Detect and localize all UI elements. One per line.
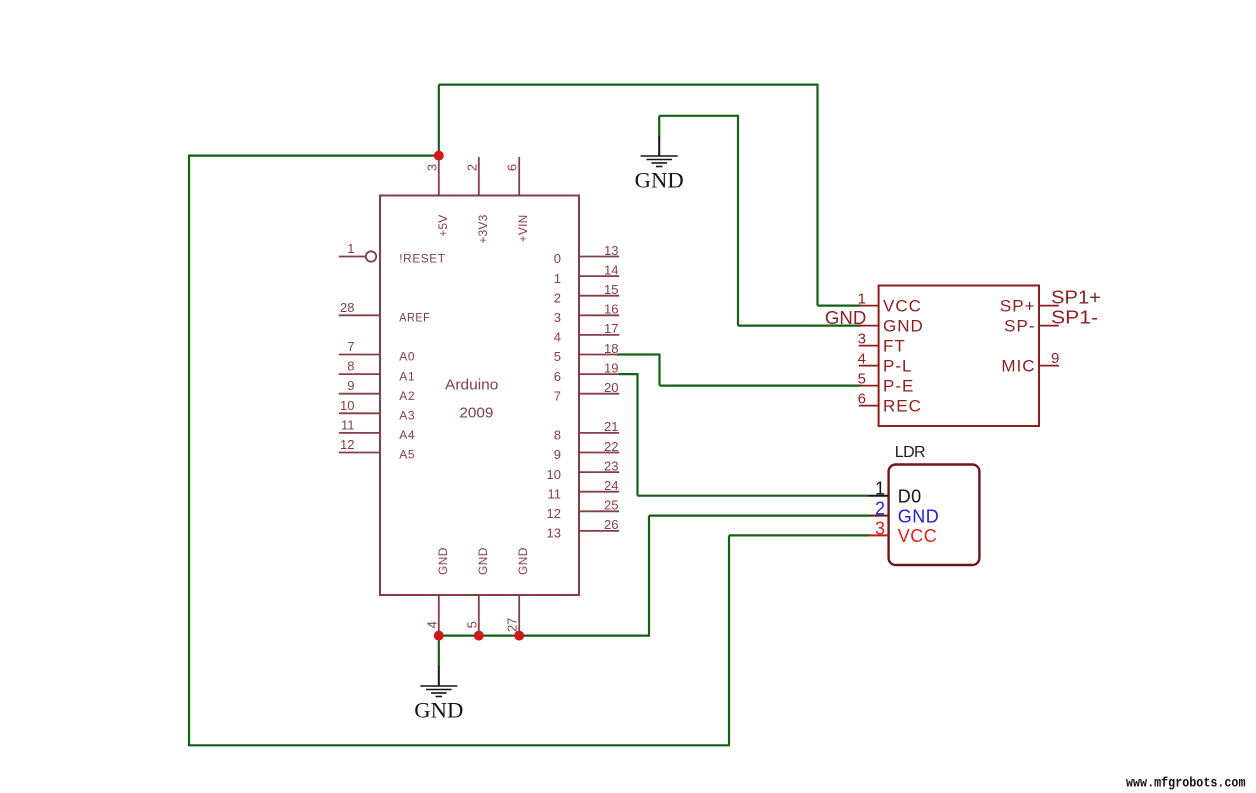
recorder pin 5 (P-E) stub — [859, 385, 879, 387]
svg-text:2: 2 — [464, 164, 479, 171]
Arduino pin 11 (A4) stub — [339, 432, 380, 434]
svg-text:25: 25 — [604, 498, 618, 513]
svg-text:VCC: VCC — [898, 526, 938, 546]
svg-text:23: 23 — [604, 458, 618, 473]
svg-text:10: 10 — [547, 467, 561, 482]
svg-text:7: 7 — [347, 339, 354, 354]
wire GND net vertical to recorder GND — [737, 115, 739, 326]
svg-text:13: 13 — [547, 526, 561, 541]
Arduino pin 5 (GND) stub — [478, 595, 480, 636]
svg-text:27: 27 — [505, 618, 520, 632]
svg-text:4: 4 — [858, 351, 866, 368]
svg-text:GND: GND — [476, 547, 490, 575]
wire +5V net bottom horizontal — [188, 744, 729, 746]
svg-text:D0: D0 — [898, 487, 922, 507]
svg-text:10: 10 — [340, 398, 354, 413]
svg-text:AREF: AREF — [399, 311, 430, 325]
junction dot GND at Arduino pin 4 — [434, 631, 444, 641]
Arduino pin 10 (A3) stub — [339, 412, 380, 414]
recorder pin 8 (SP-) stub — [1039, 325, 1059, 327]
wire +5V net top horizontal — [439, 83, 818, 85]
svg-text:SP-: SP- — [1004, 316, 1035, 335]
svg-text:GND: GND — [898, 506, 940, 526]
ground symbol top (GND) — [635, 136, 684, 193]
Arduino pin 3 (+5V) stub — [438, 157, 440, 196]
wire into LDR D0 pin — [638, 495, 870, 497]
recorder pin 6 (REC) stub — [859, 405, 879, 407]
Arduino pin 12 (A5) stub — [339, 452, 380, 454]
svg-text:28: 28 — [340, 300, 354, 315]
wire GND net into recorder GND pin — [738, 325, 861, 327]
recorder pin 2 (GND) stub — [859, 325, 879, 327]
Arduino pin 27 (GND) stub — [518, 595, 520, 636]
svg-text:1: 1 — [554, 271, 561, 286]
Arduino pin 13 (D0) stub — [579, 256, 619, 258]
wire +5V net vertical junction drop — [438, 85, 440, 157]
Arduino pin 26 (D13) stub — [579, 530, 619, 532]
LDR module body — [889, 465, 980, 566]
junction dot GND at Arduino pin 5 — [474, 631, 484, 641]
svg-text:6: 6 — [505, 164, 520, 171]
svg-text:18: 18 — [604, 341, 618, 356]
svg-text:8: 8 — [554, 428, 561, 443]
svg-text:9: 9 — [1051, 350, 1059, 367]
svg-text:GND: GND — [414, 698, 463, 723]
svg-text:+3V3: +3V3 — [476, 214, 490, 243]
wire into LDR GND pin — [649, 514, 870, 516]
svg-text:SP1-: SP1- — [1051, 307, 1098, 327]
svg-text:3: 3 — [554, 310, 561, 325]
svg-text:1: 1 — [347, 241, 354, 256]
svg-text:SP1+: SP1+ — [1051, 287, 1101, 307]
Arduino pin 24 (D11) stub — [579, 491, 619, 493]
svg-text:9: 9 — [347, 378, 354, 393]
junction dot +5V net at Arduino pin 3 — [434, 151, 444, 161]
wire GND bus drop to bottom ground symbol — [438, 636, 440, 666]
Arduino pin 19 (D6) stub — [579, 373, 619, 375]
svg-text:21: 21 — [604, 419, 618, 434]
svg-text:26: 26 — [604, 517, 618, 532]
svg-text:6: 6 — [858, 391, 866, 408]
svg-text:14: 14 — [604, 262, 618, 277]
Arduino pin 23 (D10) stub — [579, 471, 619, 473]
svg-text:www.mfgrobots.com: www.mfgrobots.com — [1126, 777, 1246, 792]
svg-text:7: 7 — [554, 388, 561, 403]
Arduino pin 14 (D1) stub — [579, 275, 619, 277]
svg-text:11: 11 — [548, 486, 562, 501]
wire GND net stub at top ground symbol — [658, 116, 660, 137]
Arduino pin 20 (D7) stub — [579, 393, 619, 395]
LDR pin 3 (VCC) stub — [869, 534, 889, 536]
svg-text:REC: REC — [883, 396, 922, 415]
svg-text:A3: A3 — [399, 409, 415, 423]
wire +5V net horizontal to left loop — [189, 155, 439, 157]
wire +5V net rise to LDR VCC — [728, 535, 730, 746]
recorder pin 9 (MIC) stub — [1039, 365, 1059, 367]
wire Arduino pin 19 to LDR D0 horizontal — [619, 373, 638, 375]
Arduino pin 18 (D5) stub — [579, 354, 619, 356]
svg-text:5: 5 — [464, 621, 479, 628]
svg-text:8: 8 — [347, 359, 354, 374]
wire Arduino pin 19 vertical segment — [636, 373, 638, 496]
voice recorder module body — [879, 286, 1039, 427]
svg-text:4: 4 — [554, 330, 561, 345]
svg-text:3: 3 — [858, 331, 866, 348]
svg-text:!RESET: !RESET — [399, 252, 445, 266]
svg-text:1: 1 — [875, 479, 885, 499]
wire +5V net right vertical to recorder VCC — [816, 84, 818, 306]
wire +5V net left vertical — [188, 155, 190, 746]
svg-text:A2: A2 — [399, 389, 415, 403]
LDR pin 2 (GND) stub — [869, 515, 889, 517]
svg-text:2009: 2009 — [459, 404, 493, 421]
svg-text:P-E: P-E — [883, 376, 914, 395]
ground symbol bottom (GND) — [414, 666, 463, 723]
svg-text:13: 13 — [604, 243, 618, 258]
Arduino pin 8 (A1) stub — [339, 373, 380, 375]
svg-text:A5: A5 — [399, 448, 415, 462]
svg-text:FT: FT — [883, 336, 906, 355]
svg-text:Arduino: Arduino — [445, 376, 498, 393]
wire Arduino pin 18 to recorder P-E horizontal — [617, 353, 660, 355]
wire GND net from top ground symbol — [659, 115, 738, 117]
svg-text:19: 19 — [604, 360, 618, 375]
svg-text:A0: A0 — [399, 350, 415, 364]
Arduino pin 17 (D4) stub — [579, 334, 619, 336]
Arduino pin 25 (D12) stub — [579, 510, 619, 512]
Arduino pin 16 (D3) stub — [579, 314, 619, 316]
svg-text:22: 22 — [604, 439, 618, 454]
wire GND bus rise to LDR GND — [648, 516, 650, 637]
svg-text:12: 12 — [547, 506, 561, 521]
svg-text:20: 20 — [604, 380, 618, 395]
svg-text:5: 5 — [858, 371, 866, 388]
Arduino pin 9 (A2) stub — [339, 393, 380, 395]
Arduino pin 4 (GND) stub — [438, 595, 440, 636]
Arduino pin 2 (+3V3) stub — [478, 157, 480, 196]
svg-text:24: 24 — [604, 478, 618, 493]
svg-text:GND: GND — [436, 547, 450, 575]
wire Arduino GND pins bottom bus — [439, 634, 649, 636]
svg-text:3: 3 — [875, 518, 885, 538]
svg-text:6: 6 — [554, 369, 561, 384]
recorder pin 1 (VCC) stub — [859, 305, 879, 307]
wire +5V net into recorder VCC pin — [818, 305, 862, 307]
Arduino pin 21 (D8) stub — [579, 432, 619, 434]
svg-text:GND: GND — [516, 547, 530, 575]
Arduino pin 28 (AREF) stub — [339, 314, 380, 316]
LDR pin 1 (D0) stub — [869, 495, 889, 497]
svg-text:+5V: +5V — [436, 215, 450, 237]
Arduino 2009 body — [380, 196, 579, 596]
svg-text:2: 2 — [875, 499, 885, 519]
Arduino pin 15 (D2) stub — [579, 295, 619, 297]
svg-text:GND: GND — [883, 316, 924, 335]
recorder pin 4 (P-L) stub — [859, 365, 879, 367]
Arduino pin 1 (!RESET) stub — [339, 256, 366, 258]
svg-text:15: 15 — [604, 282, 618, 297]
svg-text:11: 11 — [341, 417, 355, 432]
svg-text:VCC: VCC — [883, 296, 922, 315]
svg-text:GND: GND — [635, 168, 684, 193]
svg-text:MIC: MIC — [1001, 356, 1035, 375]
svg-text:SP+: SP+ — [1000, 296, 1036, 315]
svg-text:17: 17 — [604, 321, 618, 336]
svg-text:GND: GND — [825, 308, 866, 328]
recorder pin 3 (FT) stub — [859, 345, 879, 347]
svg-text:1: 1 — [858, 291, 866, 308]
svg-text:2: 2 — [554, 290, 561, 305]
wire +5V net into LDR VCC pin — [729, 534, 870, 536]
svg-text:0: 0 — [554, 251, 561, 266]
svg-text:A1: A1 — [399, 369, 415, 383]
Arduino pin 1 inversion circle — [366, 251, 376, 261]
svg-text:9: 9 — [554, 447, 561, 462]
recorder pin 10 (SP+) stub — [1039, 305, 1059, 307]
svg-text:A4: A4 — [399, 428, 415, 442]
svg-text:12: 12 — [340, 437, 354, 452]
Arduino pin 6 (+VIN) stub — [518, 157, 520, 196]
svg-text:P-L: P-L — [883, 356, 912, 375]
svg-text:3: 3 — [424, 164, 439, 171]
svg-text:16: 16 — [604, 302, 618, 317]
svg-text:+VIN: +VIN — [516, 215, 530, 243]
svg-text:4: 4 — [424, 621, 439, 628]
svg-text:LDR: LDR — [895, 444, 925, 461]
svg-text:5: 5 — [554, 349, 561, 364]
wire Arduino pin 18 vertical segment — [658, 354, 660, 386]
Arduino pin 22 (D9) stub — [579, 452, 619, 454]
junction dot GND at Arduino pin 27 — [514, 631, 524, 641]
wire into recorder P-E pin — [660, 385, 862, 387]
Arduino pin 7 (A0) stub — [339, 354, 380, 356]
